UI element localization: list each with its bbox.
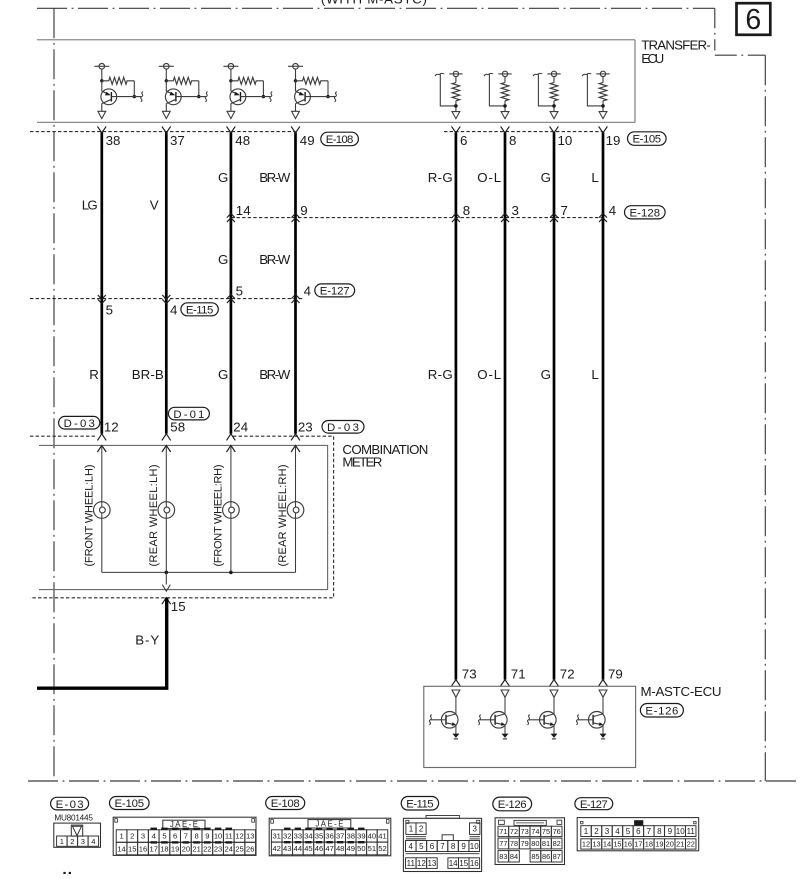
svg-text:24: 24 bbox=[233, 419, 248, 434]
junction bbox=[454, 104, 458, 108]
node connector line E-105 dashed bbox=[444, 131, 603, 133]
svg-text:6: 6 bbox=[636, 827, 641, 836]
svg-text:77: 77 bbox=[499, 839, 507, 848]
svg-text:86: 86 bbox=[542, 852, 550, 861]
wire bbox=[553, 101, 555, 112]
node connector label D-03 bbox=[322, 421, 364, 434]
svg-text:1: 1 bbox=[119, 832, 123, 841]
svg-text:9: 9 bbox=[461, 842, 466, 851]
svg-text:MU801445: MU801445 bbox=[54, 814, 93, 823]
svg-text:25: 25 bbox=[235, 844, 243, 853]
wire bbox=[295, 518, 297, 572]
wire bbox=[504, 697, 506, 714]
node terminal circle T1 bbox=[99, 64, 105, 70]
transistor QT4 input arrow bbox=[599, 690, 607, 697]
svg-text:1: 1 bbox=[409, 825, 414, 834]
svg-text:22: 22 bbox=[687, 840, 695, 849]
svg-text:2: 2 bbox=[594, 827, 599, 836]
svg-text:G: G bbox=[541, 170, 551, 185]
wire base of QT4 bbox=[578, 719, 594, 721]
wire bus to pin 15 bbox=[165, 572, 167, 584]
svg-text:19: 19 bbox=[606, 133, 621, 148]
wire pin 15 B-Y heavy bbox=[162, 598, 171, 605]
TRANSFER-ECU box right edge bbox=[634, 40, 636, 123]
node connector E-105 drawing bbox=[113, 817, 256, 855]
svg-text:72: 72 bbox=[510, 827, 518, 836]
node continuation squiggle bbox=[429, 715, 431, 725]
svg-text:E-127: E-127 bbox=[580, 799, 608, 811]
svg-text:81: 81 bbox=[542, 839, 550, 848]
junction bbox=[165, 571, 169, 575]
junction bbox=[100, 79, 103, 82]
node connector E-108 drawing bbox=[269, 818, 391, 856]
node continuation squiggle bbox=[484, 73, 493, 76]
wire emitter bbox=[553, 725, 555, 734]
svg-text:E-128: E-128 bbox=[630, 208, 661, 220]
ground arrow out of Q4 bbox=[292, 111, 300, 118]
svg-text:7: 7 bbox=[440, 842, 445, 851]
svg-text:V: V bbox=[150, 197, 159, 212]
wire bottom frame chain line bbox=[28, 780, 799, 782]
node continuation squiggle bbox=[270, 92, 272, 102]
svg-text:D-03: D-03 bbox=[327, 422, 359, 434]
node continuation squiggle bbox=[533, 73, 542, 76]
ground arrow out of Q3 bbox=[227, 111, 235, 118]
wire pin 49 vertical bbox=[294, 132, 297, 433]
ground QT1 bbox=[452, 734, 459, 738]
svg-text:80: 80 bbox=[531, 839, 539, 848]
node connector E-03 label bbox=[51, 797, 89, 810]
wire base of Q1 bbox=[111, 96, 141, 98]
svg-text:6: 6 bbox=[460, 133, 467, 148]
wire pull branch bbox=[587, 74, 603, 106]
svg-text:49: 49 bbox=[300, 133, 315, 148]
svg-text:5: 5 bbox=[419, 842, 424, 851]
svg-text:79: 79 bbox=[521, 839, 529, 848]
ground arrow RR3 bbox=[550, 112, 558, 119]
node combination meter dashed outline bbox=[30, 436, 334, 598]
svg-text:24: 24 bbox=[225, 844, 233, 853]
svg-text:4: 4 bbox=[170, 303, 177, 318]
svg-text:75: 75 bbox=[542, 827, 550, 836]
svg-text:3: 3 bbox=[141, 832, 145, 841]
wire right frame elbow bbox=[714, 8, 716, 50]
svg-text:72: 72 bbox=[560, 667, 575, 682]
svg-text:15: 15 bbox=[128, 844, 136, 853]
wire bbox=[230, 69, 232, 81]
svg-text:O-L: O-L bbox=[477, 170, 501, 185]
node connector E-127 label bbox=[575, 798, 613, 810]
node continuation squiggle bbox=[582, 73, 591, 76]
svg-text:E-105: E-105 bbox=[115, 798, 145, 810]
svg-text:E-115: E-115 bbox=[186, 305, 213, 317]
wire top frame chain line bbox=[37, 7, 715, 9]
svg-text:B-Y: B-Y bbox=[135, 633, 159, 648]
svg-text:METER: METER bbox=[342, 455, 382, 470]
svg-text:37: 37 bbox=[336, 832, 344, 841]
svg-text:5: 5 bbox=[626, 827, 631, 836]
svg-text:52: 52 bbox=[378, 844, 386, 853]
node connector label E-115 bbox=[181, 303, 218, 316]
wire into meter bbox=[97, 445, 106, 452]
wire into meter bbox=[162, 445, 171, 452]
svg-text:13: 13 bbox=[427, 859, 436, 868]
transistor QT2 bbox=[491, 712, 508, 729]
svg-text:4: 4 bbox=[91, 837, 95, 846]
svg-text:(FRONT WHEEL:RH): (FRONT WHEEL:RH) bbox=[213, 465, 225, 567]
svg-text:48: 48 bbox=[336, 844, 344, 853]
svg-text:8: 8 bbox=[451, 842, 456, 851]
svg-text:R: R bbox=[89, 367, 99, 382]
node M-ASTC-ECU box bbox=[424, 686, 636, 767]
wire bbox=[455, 101, 457, 112]
svg-text:23: 23 bbox=[214, 844, 222, 853]
svg-text:10: 10 bbox=[676, 827, 685, 836]
svg-text:3: 3 bbox=[472, 825, 477, 834]
wire bbox=[553, 697, 555, 714]
svg-text:4: 4 bbox=[304, 283, 311, 298]
transistor QT2 input arrow bbox=[501, 690, 509, 697]
transistor Q3 bbox=[230, 89, 246, 105]
svg-text:(REAR WHEEL:RH): (REAR WHEEL:RH) bbox=[277, 465, 289, 567]
ground arrow RR4 bbox=[599, 112, 607, 119]
svg-text:23: 23 bbox=[298, 419, 313, 434]
junction bbox=[262, 95, 265, 98]
junction bbox=[326, 95, 329, 98]
wire base of QT1 bbox=[430, 719, 446, 721]
svg-text:40: 40 bbox=[368, 832, 376, 841]
junction bbox=[229, 571, 233, 575]
svg-text:G: G bbox=[218, 252, 228, 267]
node cut-off text fragments bottom bbox=[63, 872, 65, 874]
svg-text:15: 15 bbox=[459, 859, 468, 868]
wire pull branch bbox=[440, 74, 456, 106]
svg-text:8: 8 bbox=[509, 133, 516, 148]
wire bbox=[198, 81, 200, 97]
node connector E-105 label bbox=[110, 797, 150, 810]
resistor R1 bbox=[102, 77, 135, 84]
svg-text:12: 12 bbox=[104, 419, 119, 434]
node connector E-115 drawing bbox=[426, 816, 459, 819]
svg-text:E-127: E-127 bbox=[320, 286, 350, 298]
svg-text:15: 15 bbox=[171, 599, 186, 614]
node continuation squiggle bbox=[334, 92, 336, 102]
ground arrow out of Q2 bbox=[162, 111, 170, 118]
svg-text:17: 17 bbox=[149, 844, 157, 853]
svg-text:2: 2 bbox=[419, 825, 424, 834]
junction bbox=[503, 104, 507, 108]
wire bbox=[133, 81, 135, 97]
svg-text:9: 9 bbox=[300, 203, 307, 218]
wire bbox=[101, 69, 103, 81]
svg-text:46: 46 bbox=[315, 844, 323, 853]
ground QT2 bbox=[502, 734, 509, 738]
svg-text:3: 3 bbox=[512, 203, 519, 218]
svg-text:7: 7 bbox=[647, 827, 652, 836]
svg-text:L: L bbox=[591, 367, 598, 382]
svg-text:E-108: E-108 bbox=[271, 798, 300, 810]
svg-text:11: 11 bbox=[225, 832, 233, 841]
svg-text:L: L bbox=[591, 170, 598, 185]
wire bbox=[165, 518, 167, 572]
svg-text:37: 37 bbox=[170, 133, 185, 148]
transistor QT3 input arrow bbox=[550, 690, 558, 697]
svg-text:21: 21 bbox=[676, 840, 684, 849]
svg-text:G: G bbox=[218, 367, 228, 382]
node terminal circle TR2 bbox=[502, 71, 507, 76]
svg-text:5: 5 bbox=[236, 283, 243, 298]
svg-text:E-03: E-03 bbox=[56, 799, 84, 811]
svg-text:1: 1 bbox=[60, 837, 64, 846]
svg-text:BR-B: BR-B bbox=[132, 367, 164, 382]
lamp L4 (REAR WHEEL:RH) bbox=[287, 502, 304, 519]
node connector line D-03 dashed left stub bbox=[30, 435, 97, 437]
svg-text:19: 19 bbox=[171, 844, 179, 853]
svg-text:13: 13 bbox=[592, 840, 600, 849]
wire into meter bbox=[227, 445, 236, 452]
svg-text:E-115: E-115 bbox=[406, 799, 433, 811]
ground QT4 bbox=[600, 734, 607, 738]
node continuation squiggle bbox=[527, 715, 529, 725]
svg-text:78: 78 bbox=[510, 839, 518, 848]
junction bbox=[294, 79, 297, 82]
op-amp TRANSFER-ECU box top edge bbox=[37, 39, 635, 41]
svg-text:11: 11 bbox=[407, 859, 416, 868]
svg-text:71: 71 bbox=[511, 667, 526, 682]
svg-text:85: 85 bbox=[531, 852, 539, 861]
svg-text:14: 14 bbox=[603, 840, 611, 849]
svg-text:6: 6 bbox=[173, 832, 177, 841]
svg-text:51: 51 bbox=[368, 844, 376, 853]
svg-text:E-126: E-126 bbox=[498, 799, 527, 811]
svg-text:ECU: ECU bbox=[641, 51, 664, 66]
svg-text:18: 18 bbox=[645, 840, 653, 849]
svg-text:7: 7 bbox=[184, 832, 188, 841]
svg-text:5: 5 bbox=[106, 303, 113, 318]
node chevrons at E-128 line wires 48/49 bbox=[227, 213, 235, 217]
svg-text:BR-W: BR-W bbox=[259, 170, 290, 185]
wire right vertical bbox=[504, 132, 507, 679]
svg-text:16: 16 bbox=[470, 859, 479, 868]
svg-text:35: 35 bbox=[315, 832, 323, 841]
node terminal circle T3 bbox=[228, 64, 234, 70]
svg-text:79: 79 bbox=[608, 667, 623, 682]
node connector label E-127 bbox=[315, 284, 355, 297]
node terminal circle T2 bbox=[164, 64, 170, 70]
node connector label D-03 bbox=[59, 416, 100, 429]
wire right frame vertical bbox=[764, 55, 766, 781]
svg-text:32: 32 bbox=[283, 832, 291, 841]
svg-text:E-105: E-105 bbox=[633, 134, 662, 146]
svg-text:45: 45 bbox=[304, 844, 312, 853]
svg-text:34: 34 bbox=[304, 832, 312, 841]
node terminal circle T4 bbox=[293, 64, 299, 70]
svg-text:8: 8 bbox=[463, 203, 470, 218]
svg-text:8: 8 bbox=[657, 827, 662, 836]
svg-text:87: 87 bbox=[553, 852, 561, 861]
wire pin 48 vertical bbox=[230, 132, 233, 433]
svg-text:76: 76 bbox=[553, 827, 561, 836]
resistor RR3 bbox=[553, 77, 555, 83]
svg-text:LG: LG bbox=[82, 197, 98, 212]
svg-text:42: 42 bbox=[272, 844, 280, 853]
transistor Q4 bbox=[295, 89, 311, 105]
svg-text:58: 58 bbox=[170, 419, 185, 434]
node continuation squiggle bbox=[141, 92, 143, 102]
svg-text:14: 14 bbox=[236, 203, 251, 218]
svg-text:38: 38 bbox=[106, 133, 121, 148]
svg-text:48: 48 bbox=[235, 133, 250, 148]
ground arrow RR2 bbox=[501, 112, 509, 119]
svg-text:82: 82 bbox=[553, 839, 561, 848]
svg-text:12: 12 bbox=[582, 840, 590, 849]
ground QT3 bbox=[551, 734, 558, 738]
wire bbox=[602, 101, 604, 112]
wire base of QT2 bbox=[480, 719, 496, 721]
junction bbox=[133, 95, 136, 98]
svg-text:50: 50 bbox=[357, 844, 365, 853]
junction bbox=[197, 95, 200, 98]
svg-text:(FRONT WHEEL:LH): (FRONT WHEEL:LH) bbox=[84, 465, 96, 567]
node connector label E-128 bbox=[625, 206, 666, 219]
svg-text:36: 36 bbox=[325, 832, 333, 841]
transistor QT1 bbox=[441, 712, 458, 729]
wire base of Q2 bbox=[176, 96, 206, 98]
node chevrons at E-127 line wires 48/49 bbox=[227, 294, 235, 298]
svg-text:R-G: R-G bbox=[428, 367, 453, 382]
resistor RR2 bbox=[504, 77, 506, 83]
svg-text:11: 11 bbox=[687, 827, 696, 836]
svg-text:12: 12 bbox=[417, 859, 426, 868]
wire pull branch bbox=[489, 74, 505, 106]
node terminal circle TR3 bbox=[551, 71, 556, 76]
resistor R3 bbox=[231, 77, 264, 84]
svg-text:D-03: D-03 bbox=[64, 418, 95, 430]
svg-text:16: 16 bbox=[139, 844, 147, 853]
transistor QT4 bbox=[589, 712, 606, 729]
svg-text:73: 73 bbox=[462, 667, 477, 682]
node connector E-126 drawing bbox=[495, 818, 564, 865]
node continuation squiggle bbox=[205, 92, 207, 102]
node connector label E-105 bbox=[628, 132, 667, 146]
svg-text:BR-W: BR-W bbox=[259, 367, 290, 382]
wire bbox=[165, 69, 167, 81]
svg-text:14: 14 bbox=[117, 844, 125, 853]
lamp L3 (FRONT WHEEL:RH) bbox=[223, 502, 240, 519]
svg-text:G: G bbox=[541, 367, 551, 382]
svg-text:83: 83 bbox=[499, 852, 507, 861]
svg-text:3: 3 bbox=[605, 827, 610, 836]
svg-text:21: 21 bbox=[192, 844, 200, 853]
svg-text:49: 49 bbox=[347, 844, 355, 853]
node index 6 box bbox=[737, 3, 771, 35]
svg-text:74: 74 bbox=[531, 827, 539, 836]
wire into meter bbox=[291, 445, 300, 452]
node connector E-108 label bbox=[266, 797, 305, 810]
svg-text:10: 10 bbox=[470, 842, 479, 851]
node connector E-127 drawing bbox=[577, 818, 699, 851]
svg-text:39: 39 bbox=[357, 832, 365, 841]
wire bbox=[602, 697, 604, 714]
wire emitter bbox=[455, 725, 457, 734]
svg-text:BR-W: BR-W bbox=[259, 252, 290, 267]
wire base of Q4 bbox=[305, 96, 335, 98]
svg-text:31: 31 bbox=[272, 832, 280, 841]
resistor R2 bbox=[166, 77, 199, 84]
wire bbox=[101, 518, 103, 572]
wire right vertical bbox=[553, 132, 556, 679]
wire pull branch bbox=[538, 74, 554, 106]
node terminal circle TR1 bbox=[453, 71, 458, 76]
resistor RR1 bbox=[455, 77, 457, 83]
wire emitter bbox=[504, 725, 506, 734]
svg-text:(WITH M-ASTC): (WITH M-ASTC) bbox=[321, 0, 427, 7]
node COMBINATION METER solid box bbox=[39, 445, 328, 589]
svg-text:7: 7 bbox=[561, 203, 568, 218]
wire base of Q3 bbox=[241, 96, 271, 98]
junction bbox=[229, 79, 232, 82]
wire bbox=[230, 518, 232, 572]
wire emitter bbox=[602, 725, 604, 734]
wire bbox=[455, 697, 457, 714]
svg-text:2: 2 bbox=[70, 837, 74, 846]
node connector E-03 drawing bbox=[54, 823, 101, 847]
node terminal circle TR4 bbox=[600, 71, 605, 76]
svg-text:43: 43 bbox=[283, 844, 291, 853]
wire base of QT3 bbox=[529, 719, 545, 721]
node connector line E-108 dashed bbox=[30, 131, 296, 133]
svg-text:4: 4 bbox=[152, 832, 156, 841]
wire right vertical bbox=[455, 132, 458, 679]
node connector line E-128 dashed bbox=[231, 217, 603, 219]
wire left frame vertical bbox=[53, 8, 55, 781]
svg-text:20: 20 bbox=[666, 840, 674, 849]
node connector label E-108 bbox=[321, 132, 359, 146]
svg-text:9: 9 bbox=[205, 832, 209, 841]
transistor QT3 bbox=[540, 712, 557, 729]
svg-text:3: 3 bbox=[81, 837, 85, 846]
transistor Q1 bbox=[101, 89, 117, 105]
svg-text:26: 26 bbox=[246, 844, 254, 853]
wire pin 37 vertical bbox=[165, 132, 168, 433]
lamp L1 (FRONT WHEEL:LH) bbox=[94, 502, 111, 519]
svg-text:R-G: R-G bbox=[428, 170, 453, 185]
svg-text:6: 6 bbox=[745, 4, 761, 36]
node continuation squiggle bbox=[478, 715, 480, 725]
svg-text:1: 1 bbox=[584, 827, 589, 836]
svg-text:38: 38 bbox=[347, 832, 355, 841]
svg-text:47: 47 bbox=[325, 844, 333, 853]
svg-text:19: 19 bbox=[655, 840, 663, 849]
svg-text:5: 5 bbox=[162, 832, 166, 841]
junction bbox=[601, 104, 605, 108]
ground arrow out of Q1 bbox=[98, 111, 106, 118]
resistor RR4 bbox=[602, 77, 604, 83]
svg-text:10: 10 bbox=[558, 133, 573, 148]
svg-text:41: 41 bbox=[378, 832, 386, 841]
node connector E-115 label bbox=[401, 797, 438, 811]
svg-text:E-108: E-108 bbox=[326, 134, 354, 146]
svg-text:4: 4 bbox=[409, 842, 414, 851]
transistor Q2 bbox=[165, 89, 181, 105]
wire right vertical bbox=[602, 132, 605, 679]
junction bbox=[165, 79, 168, 82]
svg-text:M-ASTC-ECU: M-ASTC-ECU bbox=[641, 684, 722, 699]
svg-text:33: 33 bbox=[294, 832, 302, 841]
svg-text:71: 71 bbox=[499, 827, 507, 836]
wire bbox=[504, 101, 506, 112]
TRANSFER-ECU box bottom edge bbox=[37, 121, 635, 123]
